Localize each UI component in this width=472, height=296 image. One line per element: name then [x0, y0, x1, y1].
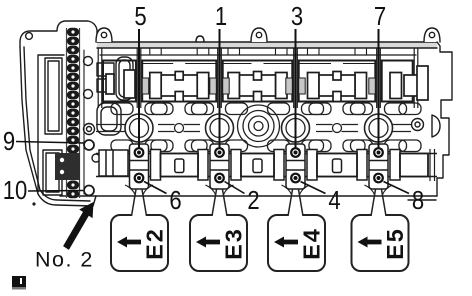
svg-text:No. 2: No. 2	[35, 248, 94, 272]
bottom edge	[60, 195, 437, 197]
flange dot	[32, 202, 35, 205]
leader 4	[301, 182, 326, 194]
left contour outer	[20, 47, 38, 194]
chain sprocket bottom	[55, 153, 80, 180]
right web bar	[393, 125, 412, 132]
vvt lower rounded rect	[97, 103, 121, 135]
top rail gray band	[97, 43, 437, 49]
small ring lower	[92, 154, 100, 162]
chain guide lower	[43, 150, 62, 195]
under-cap arc x=378	[365, 185, 393, 195]
connector box E4	[268, 190, 325, 272]
bolt ring a	[84, 57, 93, 66]
spark tube x=378	[365, 114, 393, 142]
spark tube x=139	[125, 114, 153, 142]
spark tube x=220	[206, 114, 234, 142]
right ring	[412, 119, 424, 131]
svg-text:10: 10	[3, 176, 28, 205]
bay wall x=139	[137, 48, 141, 108]
housing top line	[100, 54, 416, 56]
vvt upper rounded rect	[116, 57, 133, 100]
under-cap arc x=220	[206, 185, 234, 195]
svg-text:E2: E2	[142, 227, 168, 260]
timing chain	[67, 28, 80, 199]
intake bay right	[382, 61, 428, 102]
cover inner lines	[38, 55, 64, 192]
svg-text:1: 1	[215, 2, 227, 31]
svg-text:8: 8	[412, 186, 424, 215]
bay wall x=220	[218, 48, 222, 108]
bottom-left flange	[38, 194, 96, 206]
svg-text:E3: E3	[221, 227, 247, 260]
right D notch	[432, 115, 440, 137]
chain guide upper	[45, 58, 62, 134]
bay wall x=378	[377, 48, 381, 108]
callout line 7	[378, 29, 380, 149]
engine outline left block	[20, 21, 97, 47]
svg-text:3: 3	[291, 2, 303, 31]
under-cap arc x=139	[125, 185, 153, 195]
svg-text:7: 7	[374, 2, 386, 31]
vvt small rect B	[97, 79, 114, 92]
bearing cap x=378	[369, 144, 388, 189]
small bump x=200	[196, 36, 204, 42]
callout line 5	[138, 29, 140, 149]
bay wall x=100	[98, 48, 102, 108]
intake bay left	[103, 61, 136, 102]
dumbbell x=179	[158, 124, 200, 133]
connector box E3	[190, 190, 247, 272]
inner vertical right of chain	[83, 50, 85, 194]
svg-text:5: 5	[134, 2, 146, 31]
svg-text:9: 9	[3, 127, 15, 156]
callout line 1	[219, 29, 221, 149]
No.2 thick arrow	[63, 202, 93, 250]
left web bar	[96, 125, 125, 132]
screw top-left	[26, 33, 33, 40]
exhaust span 337	[307, 150, 367, 181]
bolt 10 ring	[84, 186, 94, 196]
bearing cap x=139	[130, 144, 149, 189]
bottom edge right inner	[408, 199, 436, 201]
connector box E2	[111, 190, 168, 272]
exhaust rails	[96, 154, 437, 177]
top tab x=259	[251, 28, 267, 42]
head top inner rail	[97, 47, 437, 49]
connector box E5	[352, 190, 409, 272]
top tab x=432	[424, 28, 440, 42]
bolt ring c	[84, 124, 95, 135]
left contour inner	[24, 47, 40, 190]
intake bay 337	[299, 49, 376, 102]
leader 10	[28, 190, 83, 193]
leader 8	[384, 182, 410, 194]
vvt small rect A	[97, 63, 114, 76]
right edge steps	[437, 42, 452, 196]
exhaust span 258	[231, 150, 284, 181]
leader 9	[16, 142, 84, 144]
bay wall x=296	[294, 48, 298, 108]
bolt ring b	[84, 90, 93, 99]
logo mark	[12, 276, 26, 290]
intake bay 258	[223, 49, 293, 102]
valve pads	[111, 103, 421, 152]
intake camshaft housing	[98, 48, 428, 108]
flange inner	[40, 190, 90, 201]
intake bay 179	[142, 49, 216, 102]
svg-text:E4: E4	[299, 227, 325, 260]
exhaust right span	[390, 149, 435, 181]
exhaust left block	[99, 150, 128, 176]
top tab x=104	[96, 28, 112, 42]
svg-text:2: 2	[247, 186, 259, 215]
big concentric circle	[238, 105, 280, 147]
bearing cap x=220	[210, 144, 229, 189]
under-cap arc x=296	[282, 185, 310, 195]
bearing cap x=296	[286, 144, 305, 189]
dumbbell x=337	[316, 124, 358, 133]
svg-text:6: 6	[169, 186, 181, 215]
head top edge	[97, 41, 437, 43]
svg-text:4: 4	[328, 186, 340, 215]
spark tube x=296	[282, 114, 310, 142]
leader 2	[225, 182, 245, 194]
bolt 9 ring	[84, 140, 94, 150]
leader 6	[144, 182, 167, 194]
exhaust span 179	[151, 150, 209, 181]
callout line 3	[295, 29, 297, 149]
bay wall x=416	[414, 48, 418, 108]
svg-text:E5: E5	[382, 227, 408, 260]
